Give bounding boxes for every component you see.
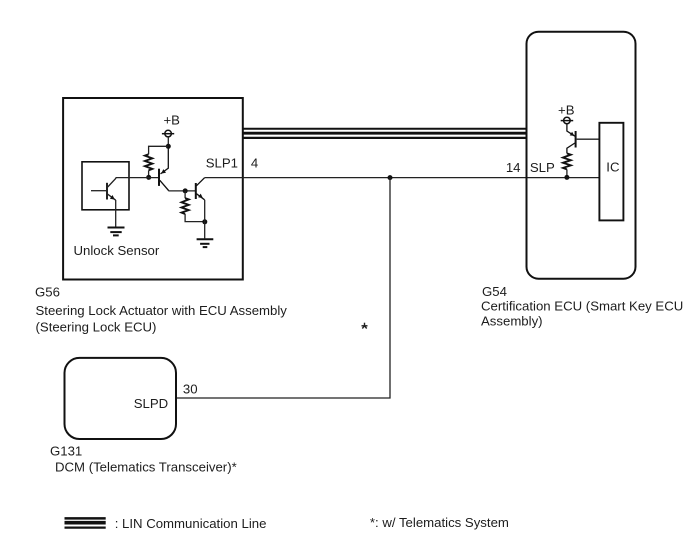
wire node to R1 (149, 146, 169, 154)
component box G56 (Steering Lock ECU) (63, 98, 243, 280)
component box G54 (Certification ECU) (527, 32, 636, 279)
svg-text:G131: G131 (50, 443, 82, 458)
svg-text:(Steering Lock ECU): (Steering Lock ECU) (36, 319, 157, 334)
ground (Q2 emitter) (197, 239, 214, 247)
resistor R1 (145, 154, 152, 170)
svg-text:G56: G56 (35, 284, 60, 299)
svg-text:Assembly): Assembly) (481, 314, 543, 329)
wire R3 to node (566, 169, 568, 177)
wire SLP1 to SLP (main LIN output line) (205, 177, 600, 179)
node (Q2 emitter) (202, 219, 207, 224)
svg-text:G54: G54 (482, 284, 507, 299)
wire branch down to DCM (177, 178, 391, 398)
node (Q1 emitter / R1 top) (166, 144, 171, 149)
wire sensor emitter to ground (115, 200, 117, 227)
node (R3 / SLP line) (564, 175, 569, 180)
svg-text:+B: +B (163, 113, 180, 128)
unlock sensor box (82, 162, 129, 210)
wire Q2 emitter to ground (204, 200, 206, 239)
phototransistor (unlock sensor) (91, 178, 116, 201)
svg-text:Certification ECU (Smart Key E: Certification ECU (Smart Key ECU (481, 298, 683, 313)
wire R1 to base node (148, 170, 150, 177)
component box G131 (DCM) (65, 358, 177, 439)
svg-text:Steering Lock Actuator with EC: Steering Lock Actuator with ECU Assembly (36, 303, 288, 318)
svg-text:Unlock Sensor: Unlock Sensor (74, 243, 160, 258)
wire Q3 base to IC (577, 138, 600, 140)
resistor R3 (563, 153, 571, 169)
svg-text:14: 14 (506, 160, 521, 175)
IC box U1 (599, 123, 623, 221)
node (Q1 base) (146, 175, 151, 180)
phototransistor emitter arrow (110, 195, 115, 200)
Q1 emitter arrow (161, 169, 166, 174)
svg-text:*: w/ Telematics System: *: w/ Telematics System (370, 515, 509, 530)
LIN bus triple line (244, 129, 527, 138)
Q3 emitter arrow (570, 132, 575, 136)
svg-text:4: 4 (251, 156, 258, 171)
svg-text:DCM (Telematics Transceiver)*: DCM (Telematics Transceiver)* (55, 460, 237, 475)
wire sensor collector to Q1 base (116, 177, 159, 179)
transistor Q1 (PNP) (159, 146, 168, 191)
node (Q2 base / R2 top) (183, 188, 188, 193)
asterisk note on branch (362, 323, 368, 329)
wire R2 to emitter node (185, 214, 205, 222)
+B terminal circle (left) (162, 130, 174, 137)
svg-text:+B: +B (558, 102, 575, 117)
node (branch to DCM) (388, 175, 393, 180)
transistor Q2 (NPN) (196, 178, 205, 200)
svg-text:IC: IC (606, 160, 620, 175)
Q2 emitter arrow (198, 194, 203, 199)
resistor R2 (182, 198, 189, 214)
+B terminal circle (right) (561, 117, 574, 124)
svg-text:30: 30 (183, 382, 198, 397)
wire node to R2 (184, 191, 186, 198)
ground (unlock sensor) (108, 228, 125, 236)
transistor Q3 (PNP, in G54) (567, 124, 576, 153)
legend LIN symbol (65, 518, 106, 527)
wire Q1 collector to Q2 base (168, 190, 195, 192)
svg-text:SLP1: SLP1 (206, 156, 238, 171)
wire +B to node (167, 137, 169, 146)
svg-text:SLPD: SLPD (134, 396, 168, 411)
svg-text:SLP: SLP (530, 160, 555, 175)
svg-text:: LIN Communication Line: : LIN Communication Line (115, 516, 267, 531)
